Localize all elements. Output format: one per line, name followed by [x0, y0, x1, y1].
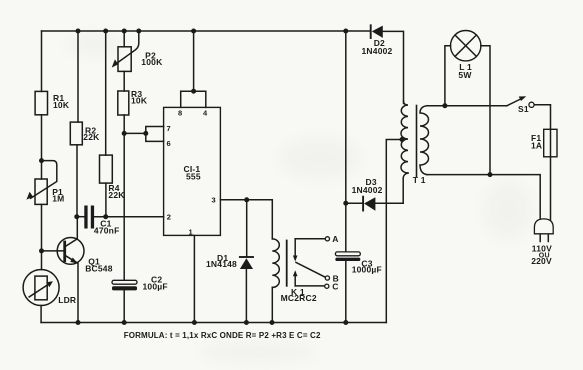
- svg-text:470nF: 470nF: [94, 226, 120, 236]
- svg-text:1N4148: 1N4148: [206, 259, 237, 269]
- svg-text:MC2RC2: MC2RC2: [281, 293, 317, 303]
- svg-text:220V: 220V: [531, 256, 552, 266]
- svg-text:BC548: BC548: [85, 263, 113, 273]
- svg-text:T 1: T 1: [413, 175, 426, 185]
- svg-text:100K: 100K: [141, 57, 163, 67]
- svg-text:1000µF: 1000µF: [352, 265, 382, 275]
- svg-text:3: 3: [212, 195, 216, 204]
- svg-text:100µF: 100µF: [143, 282, 168, 292]
- svg-text:5W: 5W: [458, 70, 472, 80]
- svg-text:1A: 1A: [531, 141, 542, 151]
- svg-text:6: 6: [167, 139, 171, 148]
- svg-text:1N4002: 1N4002: [352, 185, 383, 195]
- svg-text:7: 7: [167, 124, 171, 133]
- svg-text:C: C: [332, 282, 338, 292]
- svg-text:22K: 22K: [108, 190, 125, 200]
- svg-text:A: A: [332, 234, 338, 244]
- svg-text:555: 555: [186, 172, 201, 182]
- svg-text:1: 1: [189, 228, 193, 237]
- svg-text:FORMULA: t = 1,1x RxC ONDE R=: FORMULA: t = 1,1x RxC ONDE R= P2 +R3 E C…: [124, 331, 321, 340]
- svg-text:10K: 10K: [131, 96, 148, 106]
- svg-text:1N4002: 1N4002: [362, 46, 393, 56]
- svg-text:S1: S1: [518, 104, 529, 114]
- svg-text:10K: 10K: [53, 100, 70, 110]
- svg-text:1M: 1M: [52, 193, 64, 203]
- svg-text:8: 8: [178, 109, 182, 118]
- svg-text:2: 2: [167, 213, 171, 222]
- svg-text:22K: 22K: [83, 132, 100, 142]
- svg-text:LDR: LDR: [58, 295, 76, 305]
